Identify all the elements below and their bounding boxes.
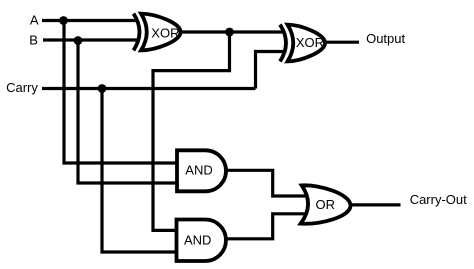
xor gate U1 body xyxy=(141,14,181,51)
wire XOR U1 output branch down-left-down to AND U4 top input xyxy=(153,32,230,230)
wire B branch vertical + horizontal to AND U3 bottom input xyxy=(78,40,177,183)
svg-text:XOR: XOR xyxy=(151,26,179,41)
wire A horizontal to XOR U1 xyxy=(42,19,138,22)
svg-text:Carry: Carry xyxy=(6,80,38,95)
node B junction xyxy=(74,36,83,45)
wire XOR U1 output to XOR U2 top input xyxy=(180,30,285,33)
and gate U3 body xyxy=(177,150,226,191)
node XOR U1 output junction xyxy=(225,28,234,37)
wire XOR U2 output to Output xyxy=(325,41,359,44)
node Carry junction xyxy=(98,84,107,93)
svg-text:AND: AND xyxy=(184,232,211,247)
svg-text:XOR: XOR xyxy=(296,35,324,50)
and gate U4 body xyxy=(177,220,226,262)
wire B horizontal to XOR U1 xyxy=(43,38,138,41)
wire AND U4 output to OR U5 bottom input xyxy=(225,214,306,239)
wire Carry horizontal xyxy=(42,87,256,90)
xor gate U1 leading arc xyxy=(134,14,140,51)
xor gate U2 body xyxy=(288,25,326,62)
xor gate U2 leading arc xyxy=(280,25,286,62)
node A junction xyxy=(59,16,68,25)
svg-text:Carry-Out: Carry-Out xyxy=(410,192,467,207)
svg-text:AND: AND xyxy=(185,162,212,177)
svg-text:Output: Output xyxy=(366,31,405,46)
wire AND U3 output to OR U5 top input xyxy=(225,170,306,196)
svg-text:B: B xyxy=(29,33,38,48)
svg-text:OR: OR xyxy=(316,197,336,212)
wire A branch vertical + horizontal to AND U3 top input xyxy=(64,21,177,164)
wire OR U5 output to Carry-Out xyxy=(349,203,401,206)
or gate U5 body xyxy=(301,185,351,223)
svg-text:A: A xyxy=(30,13,39,28)
wire Carry branch vertical + horizontal to AND U4 bottom input xyxy=(102,89,177,253)
wire Carry riser to XOR U2 bottom input xyxy=(256,52,285,89)
